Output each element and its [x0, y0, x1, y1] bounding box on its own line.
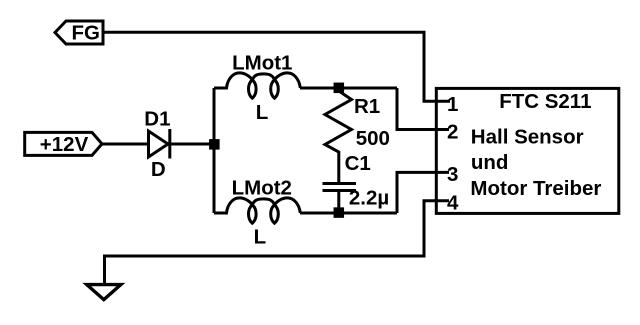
svg-text:FTC S211: FTC S211 — [499, 90, 591, 113]
inductor LMot2 — [214, 198, 300, 223]
svg-text:L: L — [256, 101, 269, 124]
svg-text:R1: R1 — [354, 95, 380, 118]
svg-text:500: 500 — [356, 127, 390, 150]
svg-text:1: 1 — [447, 93, 458, 116]
svg-text:2.2µ: 2.2µ — [349, 186, 389, 209]
svg-text:LMot1: LMot1 — [232, 51, 292, 74]
svg-text:Motor Treiber: Motor Treiber — [470, 177, 601, 200]
wire pin 4 to ground — [105, 201, 450, 284]
svg-text:3: 3 — [447, 163, 458, 186]
wire LMot1 to pin2 riser — [300, 87, 397, 90]
node B junction — [334, 83, 345, 94]
ground — [87, 285, 121, 300]
diode D1 — [149, 131, 169, 157]
svg-text:+12V: +12V — [40, 133, 89, 156]
wire FG to pin 1 riser — [103, 32, 450, 101]
svg-text:L: L — [254, 225, 267, 248]
wire node A vertical — [213, 88, 216, 213]
IC U1 FTC S211 box — [436, 88, 619, 213]
wire diode cathode to node A — [170, 143, 214, 146]
svg-text:Hall Sensor: Hall Sensor — [471, 126, 584, 149]
node C junction — [334, 207, 345, 218]
wire +12V to diode anode — [102, 143, 148, 146]
wire pin 3 — [397, 172, 449, 213]
svg-text:4: 4 — [447, 191, 459, 214]
svg-text:D1: D1 — [144, 107, 170, 130]
wire LMot2 to pin3 riser — [300, 212, 397, 215]
svg-text:D: D — [151, 158, 166, 181]
svg-text:LMot2: LMot2 — [232, 177, 292, 200]
port flag +12V — [25, 132, 102, 155]
svg-text:und: und — [471, 151, 509, 174]
inductor LMot1 — [214, 73, 300, 98]
svg-text:2: 2 — [447, 120, 458, 143]
port flag FG — [55, 21, 103, 44]
capacitor C1 — [323, 182, 357, 185]
wire pin 2 — [397, 88, 449, 130]
node A junction — [209, 139, 220, 150]
resistor R1 — [325, 89, 352, 182]
svg-text:FG: FG — [72, 22, 100, 45]
svg-text:C1: C1 — [345, 152, 371, 175]
